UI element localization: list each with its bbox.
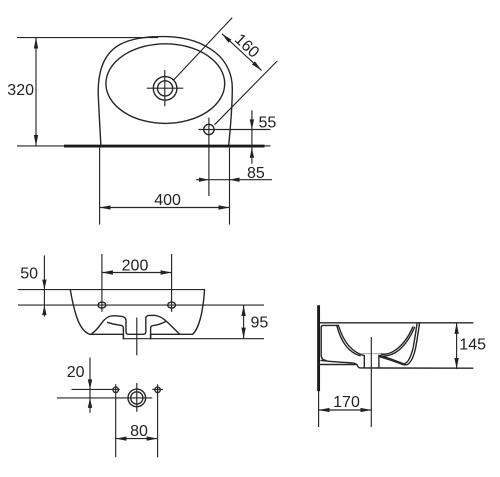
faucet crosshair horizontal [147,87,184,89]
wall line thin right [265,145,271,147]
drain hole inner [131,392,143,404]
svg-text:20: 20 [67,364,85,381]
drain boss right wall [378,355,380,368]
arrow 55 upper [250,119,254,129]
bottom 95 reference line [123,338,264,340]
arrow 50 upper [42,280,46,290]
side tap hole [204,124,214,134]
mounting line [18,304,264,306]
dimension line 50 [43,255,45,316]
faucet crosshair vertical [164,70,166,106]
faucet hole outer circle [153,77,177,101]
160 extension line through tap hole [215,61,278,125]
svg-text:400: 400 [154,192,181,209]
bolt line 1 [72,388,120,390]
arrow 20 upper [88,379,92,389]
svg-text:200: 200 [122,258,149,275]
top extension line 320 [17,37,158,39]
wall line thin left [17,145,64,147]
front rim outer [405,323,419,365]
bolt hole left vertical / 80 extension [115,384,117,457]
bowl inner line left [108,322,124,338]
dimension line 200 [102,272,172,274]
basin outline (top view) [98,37,232,146]
bolt hole right crosshair horizontal [152,388,163,390]
drain hole outer [128,389,146,407]
dimension line 85 horizontal [196,179,272,181]
svg-text:320: 320 [7,82,34,99]
200 extension right [171,254,173,312]
underside lower edge [319,364,357,366]
bowl descent outer [338,325,364,355]
bowl sweep outer [380,328,415,357]
side top rim line [320,322,473,324]
drain line 2 [57,397,152,399]
bolt hole right vertical / 80 extension [157,384,159,457]
bowl descent inner [337,325,361,355]
svg-text:95: 95 [251,315,269,332]
svg-text:145: 145 [459,336,486,353]
svg-text:80: 80 [130,423,148,440]
front outline right [151,290,205,335]
svg-text:55: 55 [259,115,277,132]
faucet hole inner circle [158,81,173,96]
wall line thick [64,145,265,148]
front outline left [70,290,123,335]
mounting hole left [98,302,106,308]
dimension line 400 [100,207,230,209]
mounting hole right [168,302,176,308]
arrow 20 lower [88,398,92,408]
bolt hole left [113,387,118,392]
dimension line 55 vertical [251,110,253,163]
dimension line 145 [456,323,458,369]
arrow 50 lower [42,305,46,315]
wall thick line [317,305,320,391]
bowl front bottom outer [379,356,405,365]
underside edge with foot and bottom line [321,360,473,368]
front top line [18,289,205,291]
svg-text:50: 50 [20,265,38,282]
drain step right wall [150,334,152,338]
svg-text:160: 160 [231,31,262,62]
tap hole crosshair vertical / 85 extension [208,118,210,196]
dimension line 20 [89,358,91,413]
dimension line 170 [319,409,372,411]
front drain centerline [136,318,138,356]
200 extension left [101,254,103,312]
arrow 55 lower [250,148,254,158]
side drain centerline / 170 extension [370,337,372,427]
front rim inner [405,323,418,364]
dimension line 95 [243,305,245,339]
wall thin extension [318,391,320,427]
drain boss left wall [363,356,365,368]
drain step left wall [122,334,124,338]
bolt hole right [155,387,160,392]
bowl inner line right [151,322,166,339]
160 extension line through faucet [174,18,233,81]
dimension line 80 [116,438,158,440]
arrow 85 left [199,178,209,182]
svg-text:85: 85 [247,165,265,182]
400 extension right [229,148,231,225]
bowl bottom faint line [361,353,388,355]
bowl sweep inner [381,327,413,355]
drain crosshair vertical [136,383,138,412]
bowl hills section [91,315,180,334]
bowl front bottom inner [380,357,405,365]
400 extension left [99,148,101,225]
svg-text:170: 170 [333,394,360,411]
inner oval basin [106,44,225,124]
dimension line 320 [35,38,37,146]
arrow 85 right [230,178,240,182]
dimension line 160 diagonal [222,34,262,71]
tap hole crosshair horizontal / 55 extension [198,129,270,131]
back flange outline [321,325,338,360]
